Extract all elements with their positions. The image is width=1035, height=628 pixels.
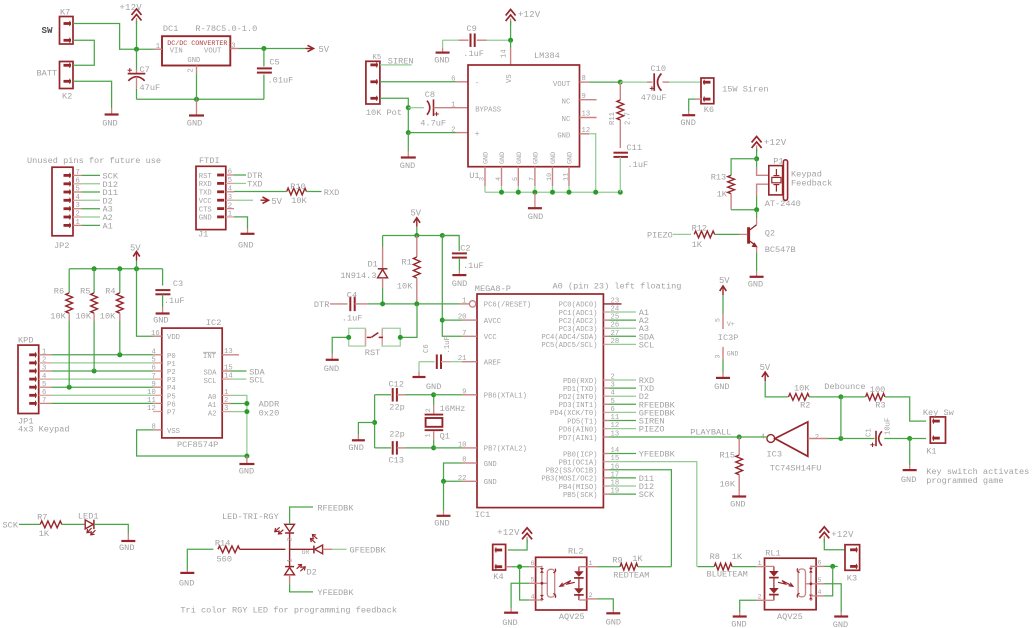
svg-text:P1: P1	[773, 157, 783, 167]
ground right of RL1	[840, 612, 842, 617]
wire VOUT to 5V	[239, 48, 306, 50]
svg-text:Unused pins for future use: Unused pins for future use	[27, 156, 161, 166]
svg-text:.1uF: .1uF	[164, 296, 185, 306]
svg-text:6: 6	[228, 169, 232, 177]
svg-text:5: 5	[42, 381, 46, 389]
wire LED1 gnd	[94, 524, 128, 533]
svg-text:GND: GND	[499, 152, 507, 164]
RL1 pin 6	[816, 565, 824, 567]
svg-text:.01uF: .01uF	[268, 76, 294, 86]
wire xtal left	[374, 395, 376, 448]
svg-text:C5: C5	[269, 58, 279, 68]
svg-text:R-78C5.0-1.0: R-78C5.0-1.0	[195, 24, 257, 34]
svg-text:VCC: VCC	[199, 198, 213, 206]
svg-text:K3: K3	[847, 574, 857, 584]
ground under C9	[442, 48, 444, 53]
svg-text:PD1(TXD): PD1(TXD)	[563, 386, 598, 394]
svg-text:5: 5	[151, 357, 155, 365]
capacitor C10 470uF	[653, 73, 655, 91]
pin 1 of JP1	[39, 354, 52, 356]
svg-text:PC4(ADC4/SDA): PC4(ADC4/SDA)	[541, 334, 597, 342]
svg-text:5: 5	[512, 177, 520, 181]
svg-text:3: 3	[715, 355, 722, 359]
capacitor C5	[263, 49, 265, 67]
junction P1 top	[754, 156, 759, 161]
svg-text:10K Pot: 10K Pot	[366, 108, 402, 118]
svg-text:10: 10	[458, 441, 467, 449]
ground under DC1	[196, 99, 198, 115]
svg-text:Q2: Q2	[765, 229, 775, 239]
wire RST left gnd	[332, 337, 349, 353]
pin 3 of JP1	[39, 370, 52, 372]
svg-text:-: -	[475, 80, 480, 88]
connector K5	[366, 61, 380, 104]
wire IC3P gnd	[722, 359, 724, 372]
svg-text:PIEZO: PIEZO	[639, 425, 665, 435]
svg-text:GND: GND	[532, 152, 540, 164]
diode D1 1N914	[382, 236, 384, 248]
wire +12V to K3	[824, 539, 844, 550]
svg-text:4: 4	[817, 589, 821, 597]
ground under ADDR	[246, 456, 248, 464]
led yellow D2	[285, 566, 294, 568]
svg-text:1: 1	[156, 43, 160, 51]
junction bypass gnd	[406, 130, 411, 135]
svg-text:J1: J1	[198, 230, 208, 240]
connector JP2	[52, 167, 73, 236]
ground under R14	[186, 570, 188, 573]
svg-text:D2: D2	[307, 568, 317, 578]
junction rail 5V	[134, 266, 139, 271]
svg-text:R3: R3	[875, 401, 885, 411]
svg-text:5: 5	[531, 577, 535, 585]
svg-text:5: 5	[817, 577, 821, 585]
wire RL2 pin5 gnd	[511, 583, 529, 608]
svg-text:4: 4	[531, 593, 535, 601]
wire 5V to VDD	[137, 269, 154, 336]
ground under C6	[418, 362, 420, 372]
svg-text:C3: C3	[173, 279, 183, 289]
wire pin9	[434, 394, 462, 396]
svg-text:1: 1	[758, 560, 762, 568]
wire R10 to RXD	[306, 191, 321, 193]
wire C1 to K1	[884, 438, 909, 440]
svg-text:10: 10	[147, 389, 156, 397]
wire ground rail DC1	[137, 98, 264, 100]
svg-text:10uF: 10uF	[885, 418, 893, 435]
svg-text:PD0(RXD): PD0(RXD)	[563, 378, 598, 386]
connector JP1 keypad	[18, 345, 39, 413]
svg-text:GND: GND	[680, 118, 695, 128]
svg-text:PC5(ADC5/SCL): PC5(ADC5/SCL)	[541, 342, 597, 350]
pin 7 P3 of IC2	[153, 378, 162, 380]
svg-text:C1: C1	[866, 428, 874, 437]
svg-text:+12V: +12V	[831, 530, 854, 540]
wire C10 to K6	[663, 81, 670, 83]
svg-text:PB3(MOSI/OC2): PB3(MOSI/OC2)	[541, 476, 597, 484]
junction rail R5	[92, 266, 97, 271]
wire LM384 gnd rail	[485, 191, 620, 193]
wire K4 pin2	[506, 566, 512, 568]
svg-text:PB4(MISO): PB4(MISO)	[559, 484, 598, 492]
svg-text:AT-2440: AT-2440	[765, 199, 801, 209]
junction C8 left	[406, 105, 411, 110]
wire RL2 pin4 loop	[520, 567, 530, 600]
svg-text:RXD: RXD	[324, 188, 339, 198]
svg-text:R10: R10	[290, 182, 305, 192]
svg-text:22p: 22p	[389, 403, 404, 413]
svg-text:GND: GND	[434, 56, 449, 66]
svg-text:12: 12	[582, 127, 591, 135]
svg-text:VSS: VSS	[167, 428, 180, 436]
wire +12V to pin14	[510, 21, 512, 40]
svg-text:P1: P1	[167, 361, 176, 369]
svg-text:R12: R12	[692, 224, 707, 234]
pin 1 of JP2 net A1	[73, 224, 82, 226]
svg-text:MEGA8-P: MEGA8-P	[475, 284, 511, 294]
svg-text:10K: 10K	[50, 311, 66, 321]
wire pin10	[434, 447, 462, 449]
wire K2 pin2 to GND	[73, 81, 112, 108]
pin 7 of JP1	[39, 402, 52, 404]
IC3P power pin 5	[722, 315, 724, 329]
wire K1 gnd	[909, 439, 911, 466]
svg-text:REDTEAM: REDTEAM	[613, 570, 649, 580]
wire R9 to pin16 net	[638, 566, 672, 568]
svg-text:R1: R1	[402, 258, 412, 268]
svg-text:P6: P6	[167, 401, 176, 409]
svg-text:AVCC: AVCC	[484, 318, 502, 326]
svg-text:Key Sw: Key Sw	[923, 408, 955, 418]
svg-text:DC1: DC1	[163, 24, 178, 34]
svg-text:C10: C10	[651, 64, 666, 74]
relay RL2 AQV25	[536, 557, 587, 610]
RL2 pin 4	[529, 599, 535, 601]
svg-text:6: 6	[451, 76, 455, 84]
svg-text:1K: 1K	[39, 529, 50, 539]
svg-text:470uF: 470uF	[641, 93, 667, 103]
svg-text:GND: GND	[199, 215, 212, 223]
svg-text:4: 4	[42, 373, 46, 381]
junction AVCC	[440, 318, 445, 323]
svg-text:3: 3	[224, 405, 228, 413]
svg-text:.1uF: .1uF	[463, 261, 484, 271]
svg-text:PC2(ADC2): PC2(ADC2)	[559, 318, 598, 326]
IC3P power pin 3	[722, 347, 724, 359]
svg-text:PD3(INT1): PD3(INT1)	[559, 402, 598, 410]
wire 5V rail resistors	[69, 268, 162, 270]
pin 4 P0 of IC2	[153, 354, 162, 356]
svg-text:.1uF: .1uF	[463, 49, 484, 59]
svg-text:SW: SW	[42, 25, 54, 36]
svg-text:1: 1	[589, 560, 593, 568]
junction K3 pin2	[830, 564, 835, 569]
pin 2 of DC1	[196, 66, 198, 74]
svg-text:GND: GND	[400, 161, 415, 171]
svg-text:YFEEDBK: YFEEDBK	[639, 450, 676, 460]
svg-text:VOUT: VOUT	[204, 48, 222, 56]
svg-text:2: 2	[76, 211, 80, 219]
switch RST	[349, 328, 366, 337]
ground under Q2	[756, 271, 758, 277]
svg-text:1N914.3: 1N914.3	[340, 271, 376, 281]
svg-text:PC3(ADC3): PC3(ADC3)	[559, 326, 598, 334]
junction mega gnd	[441, 479, 446, 484]
pin 7 VCC of IC1	[462, 335, 477, 337]
svg-text:A1: A1	[103, 221, 113, 231]
svg-text:PCF8574P: PCF8574P	[177, 440, 218, 450]
svg-text:6: 6	[817, 560, 821, 568]
svg-text:PD5(T1): PD5(T1)	[567, 418, 597, 426]
svg-text:3: 3	[231, 43, 235, 51]
svg-text:AQV25: AQV25	[559, 612, 585, 622]
wire pin12 to rail	[589, 134, 596, 192]
svg-text:K6: K6	[704, 105, 714, 115]
RL1 pin 4	[816, 595, 824, 597]
wire J1 pin1 to GND	[234, 217, 248, 229]
svg-text:GND: GND	[484, 461, 497, 469]
svg-text:11: 11	[147, 397, 156, 405]
svg-text:3: 3	[228, 194, 232, 202]
wire J1 DTR	[234, 174, 246, 176]
pin 4 of J1	[226, 191, 234, 193]
wire J1 pin4 to R10	[234, 191, 287, 193]
wire K6 pin2 gnd	[696, 98, 702, 100]
svg-text:+12V: +12V	[518, 10, 541, 20]
junction xtal2	[431, 445, 436, 450]
pin 3 of DC1	[230, 48, 238, 50]
svg-text:5V: 5V	[271, 197, 282, 207]
pin 10 PB7(XTAL2) of IC1	[462, 447, 477, 449]
RL2 pin 6	[529, 566, 535, 568]
svg-text:AREF: AREF	[484, 360, 501, 368]
svg-text:BYPASS: BYPASS	[475, 106, 501, 114]
wire RST right	[400, 304, 417, 338]
svg-text:7: 7	[76, 169, 80, 177]
wire AVCC VCC	[442, 236, 462, 337]
pin 12 of LM384	[580, 133, 590, 135]
capacitor C7	[136, 49, 138, 69]
ground under RL1	[739, 612, 741, 617]
svg-text:C13: C13	[389, 456, 404, 466]
wire RL2 pin1 to R9	[597, 566, 620, 568]
junction xtal1	[431, 392, 436, 397]
capacitor C1 10uF	[875, 431, 877, 446]
svg-text:P2: P2	[167, 369, 176, 377]
pin 10 P5 of IC2	[153, 394, 162, 396]
pin 22 GND of IC1	[462, 480, 477, 482]
junction IC2 gnd	[244, 454, 249, 459]
resistor R9 1K	[620, 563, 638, 570]
ground under LM384	[534, 193, 536, 208]
junction RST left	[346, 335, 351, 340]
inverter IC3 TC74SH14FU	[767, 435, 775, 443]
svg-text:6: 6	[531, 560, 535, 568]
svg-text:3: 3	[76, 202, 80, 210]
svg-text:SCK: SCK	[3, 521, 19, 531]
svg-text:Debounce: Debounce	[824, 382, 865, 392]
pin 8 VSS of IC2	[153, 429, 162, 431]
resistor R14 560	[218, 546, 240, 553]
svg-text:GND: GND	[731, 620, 746, 628]
svg-text:NC: NC	[562, 98, 571, 106]
svg-text:LM384: LM384	[534, 51, 560, 61]
svg-text:47uF: 47uF	[140, 83, 161, 93]
wire P1 pins	[756, 159, 758, 167]
led red RFEEDBK	[285, 524, 295, 531]
svg-text:16: 16	[151, 330, 160, 338]
wire +12V down	[756, 149, 758, 159]
svg-text:PLAYBALL: PLAYBALL	[690, 428, 731, 438]
svg-text:5: 5	[76, 186, 80, 194]
junction keypad row5	[67, 385, 72, 390]
ground under IC1	[443, 510, 445, 516]
op-amp U1 LM384 box	[468, 65, 580, 167]
pin 4 of JP1	[39, 378, 52, 380]
junction RST right	[398, 335, 403, 340]
svg-text:4.7uF: 4.7uF	[420, 119, 446, 129]
svg-text:LED-TRI-RGY: LED-TRI-RGY	[222, 512, 279, 522]
capacitor C4 .1uF	[349, 297, 351, 312]
pin 5 of JP1	[39, 386, 52, 388]
junction R11 top	[618, 80, 623, 85]
svg-text:2: 2	[42, 357, 46, 365]
svg-text:GND: GND	[528, 212, 543, 222]
resistor R4	[119, 269, 121, 293]
wire R8 to RL1 pin1	[732, 566, 757, 568]
ground under K6	[688, 111, 690, 115]
wire K7 pin1 to +12V node	[73, 24, 154, 50]
svg-text:2.7: 2.7	[625, 112, 633, 125]
wire J1 TXD	[234, 182, 246, 184]
junction C5 top	[261, 46, 266, 51]
svg-text:1: 1	[76, 219, 80, 227]
svg-text:K4: K4	[493, 572, 503, 582]
ground under R15	[738, 491, 740, 497]
pin 3 of JP2 net A3	[73, 208, 82, 210]
svg-text:GND: GND	[434, 518, 449, 528]
svg-text:1: 1	[287, 559, 294, 563]
+12V supply at LM384	[506, 10, 516, 16]
led cross vertical	[289, 534, 291, 550]
svg-text:GND: GND	[557, 133, 570, 141]
svg-text:.1uF: .1uF	[342, 314, 363, 324]
wire VSS to gnd	[137, 430, 247, 456]
svg-text:3: 3	[479, 177, 487, 181]
junction debounce	[838, 394, 843, 399]
wire junction to C8	[408, 107, 424, 109]
pin 1 of DC1	[154, 48, 163, 50]
pin 6 of J1	[226, 174, 234, 176]
resistor R8 1K	[698, 566, 714, 568]
5V supply above R1	[414, 218, 421, 223]
ground under C3	[162, 307, 164, 314]
resistor R3 100	[841, 396, 866, 398]
svg-text:YFEEDBK: YFEEDBK	[317, 588, 354, 598]
wire RL2 pin2 gnd	[597, 599, 614, 610]
svg-text:GND: GND	[606, 618, 621, 628]
svg-text:100: 100	[870, 385, 885, 395]
svg-text:C12: C12	[389, 380, 404, 390]
svg-text:C6: C6	[423, 344, 431, 353]
wire K5 pin2 to LM384 -in	[380, 81, 457, 83]
ground under C2	[458, 271, 460, 276]
svg-text:GND: GND	[727, 351, 739, 358]
svg-text:GND: GND	[901, 475, 916, 485]
RL1 pin 5	[816, 583, 824, 585]
svg-text:GND: GND	[833, 620, 848, 628]
wire R2 to junction	[809, 396, 841, 398]
svg-text:R13: R13	[711, 173, 726, 183]
svg-text:0x20: 0x20	[259, 408, 280, 418]
svg-text:+: +	[475, 131, 480, 139]
pin 8 of LM384	[580, 81, 589, 83]
junction IC3 in node	[838, 436, 843, 441]
svg-text:BC547B: BC547B	[765, 245, 796, 255]
svg-text:1: 1	[425, 433, 433, 437]
+12V at K3	[819, 527, 829, 533]
svg-text:VIN: VIN	[170, 48, 183, 56]
ground under K2	[111, 108, 113, 115]
resistor R6	[68, 269, 70, 293]
pin 9 PB6(XTAL1) of IC1	[462, 394, 477, 396]
wire R12 to base	[715, 233, 740, 235]
svg-text:1: 1	[462, 297, 466, 305]
wire RL1 pin6 to K3	[824, 565, 838, 567]
wire to LM384 +in	[408, 132, 456, 134]
svg-text:9: 9	[582, 93, 586, 101]
svg-text:6: 6	[42, 389, 46, 397]
svg-text:GND: GND	[484, 479, 497, 487]
ground right of RL2	[612, 610, 614, 613]
resistor R7 1K	[40, 521, 62, 528]
pin 9 NC	[580, 99, 597, 101]
junction R1 bottom	[414, 301, 419, 306]
svg-text:.1uF: .1uF	[628, 160, 649, 170]
pin 7 of JP2 net SCK	[73, 174, 82, 176]
svg-text:GND: GND	[238, 240, 253, 250]
resistor R13 1K	[728, 175, 735, 193]
svg-text:SCL: SCL	[249, 376, 264, 386]
wire to pin 14	[510, 40, 512, 47]
svg-text:R8: R8	[710, 552, 720, 562]
svg-text:GND: GND	[483, 152, 491, 164]
junction rail R4	[117, 266, 122, 271]
svg-text:RFEEDBK: RFEEDBK	[317, 503, 354, 513]
wire C4 to pin1	[355, 303, 368, 305]
svg-text:TC74SH14FU: TC74SH14FU	[770, 464, 822, 474]
svg-text:C2: C2	[460, 244, 470, 254]
svg-text:13: 13	[582, 111, 591, 119]
pin 12 P7 of IC2	[153, 411, 162, 413]
svg-text:Tri color RGY LED for programm: Tri color RGY LED for programming feedba…	[180, 606, 397, 616]
pin 4 of JP2 net D2	[73, 199, 82, 201]
svg-text:10K: 10K	[397, 282, 413, 292]
svg-text:2: 2	[228, 202, 232, 210]
wire RL1 pin5 gnd	[824, 584, 841, 612]
svg-text:PC0(ADC0): PC0(ADC0)	[559, 302, 598, 310]
svg-text:22: 22	[458, 475, 467, 483]
svg-text:GND: GND	[348, 443, 363, 453]
junction K4 pin2	[517, 564, 522, 569]
svg-text:R5: R5	[80, 287, 90, 297]
svg-text:5: 5	[228, 177, 232, 185]
svg-text:PB7(XTAL2): PB7(XTAL2)	[484, 446, 527, 454]
svg-text:K7: K7	[60, 8, 70, 18]
wire C8 to pin1	[434, 107, 469, 109]
ic IC2 PCF8574P box	[162, 328, 222, 438]
svg-text:R7: R7	[37, 513, 47, 523]
